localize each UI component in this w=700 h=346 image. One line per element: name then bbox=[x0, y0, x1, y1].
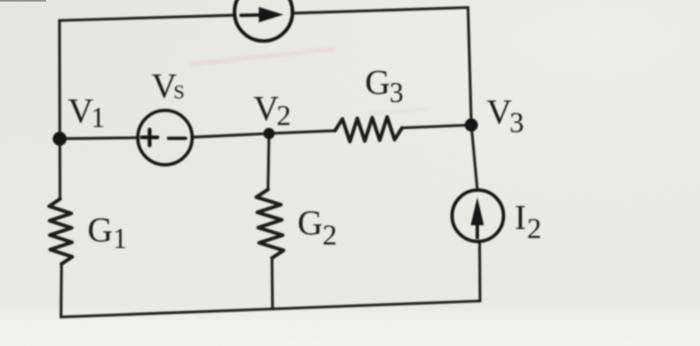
svg-text:G: G bbox=[365, 63, 390, 102]
wire right side (TR corner to V3) bbox=[468, 8, 471, 126]
wire V2 down to G2 top bbox=[268, 134, 269, 190]
svg-text:3: 3 bbox=[510, 107, 525, 139]
svg-text:G: G bbox=[298, 204, 323, 243]
svg-text:S: S bbox=[174, 82, 185, 104]
node V2 bbox=[263, 128, 274, 139]
svg-text:V: V bbox=[68, 92, 93, 131]
wire bottom bbox=[61, 301, 480, 317]
photo edge mark top-left bbox=[0, 0, 46, 2]
wire Vs right to V2 bbox=[192, 134, 269, 138]
resistor G3 bbox=[335, 117, 402, 142]
wire V3 to I2 top bbox=[471, 125, 477, 190]
wire top-left segment bbox=[60, 15, 235, 20]
svg-text:2: 2 bbox=[323, 220, 338, 252]
resistor G1 bbox=[49, 199, 72, 264]
wire V2 to G3 left bbox=[269, 131, 335, 134]
svg-text:1: 1 bbox=[113, 224, 127, 255]
svg-text:2: 2 bbox=[277, 100, 292, 132]
faint pink streaks bbox=[192, 49, 428, 114]
svg-text:V: V bbox=[487, 93, 512, 132]
voltage source Vs (circle with + -) bbox=[138, 110, 192, 164]
svg-text:1: 1 bbox=[91, 103, 105, 134]
wire I2 bottom to bottom-right corner bbox=[478, 241, 481, 301]
wire G2 bottom to bottom wire bbox=[271, 258, 274, 309]
wire top-right segment bbox=[293, 8, 468, 14]
svg-text:I: I bbox=[515, 198, 527, 237]
svg-text:3: 3 bbox=[390, 78, 404, 109]
node V3 bbox=[465, 118, 478, 131]
wire G1 bottom to bottom-left corner bbox=[60, 264, 63, 317]
wire V1 to Vs left bbox=[60, 138, 138, 139]
current source top (circle with right arrow) bbox=[235, 0, 293, 41]
resistor G2 bbox=[256, 190, 283, 259]
wire G3 right to V3 bbox=[402, 125, 471, 128]
wire left side (TL corner to G1 top) bbox=[58, 21, 61, 200]
node V1 bbox=[53, 132, 67, 146]
current source I2 (circle with up arrow) bbox=[452, 190, 503, 241]
svg-text:V: V bbox=[254, 89, 279, 128]
svg-text:2: 2 bbox=[527, 213, 542, 245]
svg-text:G: G bbox=[88, 211, 113, 250]
